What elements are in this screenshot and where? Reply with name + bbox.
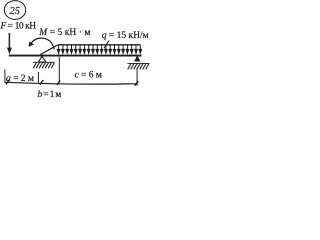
svg-text:F = 10 кН: F = 10 кН bbox=[0, 20, 36, 30]
dimension dropper under right support bbox=[136, 69, 138, 86]
right support (roller) triangle bbox=[135, 56, 140, 61]
distributed load arrows bbox=[59, 45, 141, 51]
svg-text:q = 15 кН/м: q = 15 кН/м bbox=[102, 31, 149, 41]
right support hatching bbox=[128, 64, 149, 70]
left support hatching bbox=[33, 63, 54, 69]
force F arrow bbox=[8, 33, 10, 50]
dimension tick at support bbox=[40, 80, 43, 85]
dimension dropper under left support bbox=[37, 72, 39, 83]
q leader line bbox=[104, 41, 109, 48]
moment M tail line bbox=[40, 45, 57, 54]
svg-text:25: 25 bbox=[10, 6, 21, 17]
moment M arc bbox=[30, 38, 54, 49]
dimension dropper at beam left end bbox=[4, 69, 6, 82]
svg-text:b = 1 м: b = 1 м bbox=[38, 90, 62, 100]
moment M arrowhead bbox=[29, 42, 35, 47]
svg-text:M = 5 кН · м: M = 5 кН · м bbox=[38, 28, 90, 38]
left support ground line bbox=[33, 61, 55, 63]
right support ground line bbox=[127, 62, 149, 64]
beam bbox=[9, 55, 142, 57]
dimension line bbox=[5, 82, 137, 84]
dimension tick left end bbox=[6, 80, 9, 85]
problem number circle 25 bbox=[4, 1, 25, 20]
left support (pin) triangle bbox=[38, 56, 45, 62]
dimension tick right end bbox=[135, 81, 138, 86]
distributed load top line bbox=[58, 44, 141, 46]
svg-text:c = 6 м: c = 6 м bbox=[75, 70, 102, 81]
svg-text:a = 2 м: a = 2 м bbox=[6, 73, 34, 84]
dimension tick at load start bbox=[57, 80, 60, 85]
dimension dropper at load start bbox=[58, 57, 60, 83]
